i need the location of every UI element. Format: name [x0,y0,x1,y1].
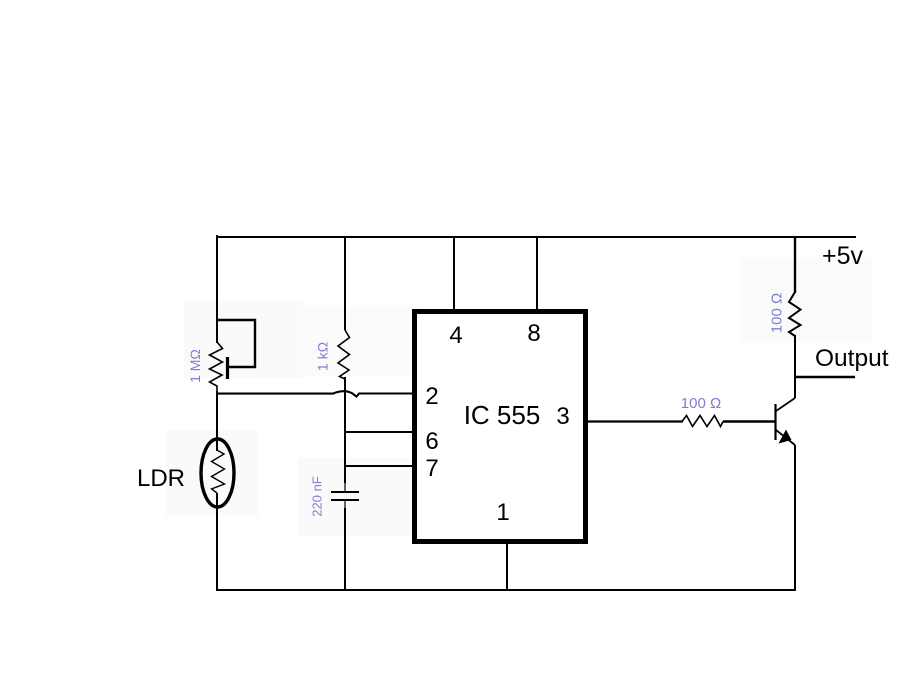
wire pin1 to bottom rail [506,543,508,591]
svg-text:Output: Output [815,345,889,372]
LDR ellipse body [201,439,234,507]
wire LDR to bottom rail [216,493,218,591]
svg-text:220 nF: 220 nF [310,476,325,517]
wire left vertical from rail to potentiometer [216,235,218,343]
faint artifact patch 1k area [295,306,420,376]
wire pin6 to IC [345,431,413,433]
svg-text:100 Ω: 100 Ω [769,293,786,333]
svg-text:7: 7 [425,455,438,482]
svg-text:+5v: +5v [822,242,864,270]
wire emitter to bottom rail [794,445,796,591]
transistor Q1 collector diagonal [776,398,795,411]
wire top +5v rail [216,236,856,238]
LDR resistor zigzag [212,450,225,493]
faint artifact patch collector resistor area [740,258,872,342]
svg-text:6: 6 [425,428,438,455]
wire pin8 to rail [536,237,538,310]
faint artifact patch capacitor area [298,458,423,536]
wire collector vertical to output junction [794,335,796,398]
potentiometer VR1 wiper bracket wire [217,320,255,367]
svg-text:LDR: LDR [137,465,185,492]
faint artifact patch pot area [184,300,305,378]
capacitor C1 top plate [331,491,359,493]
potentiometer VR1 1M resistor zigzag [210,342,223,394]
transistor Q1 emitter diagonal [776,430,795,445]
svg-text:IC 555: IC 555 [464,400,541,430]
wire pin3 to base resistor [587,420,683,422]
wire pin2 from pot over 1k branch to IC [217,391,414,396]
svg-text:3: 3 [556,403,569,430]
wire 1k bottom through junction to capacitor [344,377,346,483]
wire 1k branch from rail down [344,237,346,330]
transistor Q1 base bar [774,404,776,440]
svg-text:8: 8 [527,320,540,347]
resistor R4 100 collector zigzag [789,292,801,336]
faint artifact patch LDR area [166,430,258,516]
wire pot bottom to LDR [216,393,218,451]
capacitor C1 bottom plate [331,499,359,501]
resistor R3 100 base zigzag [682,416,723,427]
resistor R2 1k zigzag [338,330,350,379]
svg-text:2: 2 [425,383,438,410]
wire pin4 to rail [453,237,455,310]
svg-text:100 Ω: 100 Ω [681,395,721,412]
transistor Q1 emitter arrow [779,430,792,444]
wire base resistor to transistor base [723,420,775,422]
wire pin7 to IC [345,465,413,467]
svg-text:4: 4 [449,322,462,349]
wire thin lead from capacitor bottom plate [344,500,346,508]
wire bottom rail [216,589,795,591]
node junction pot bottom / pin2 [216,391,218,394]
wire +5v rail down to collector resistor [794,237,796,293]
op-amp U1 IC 555 box [415,312,586,542]
svg-text:1: 1 [496,499,509,526]
svg-text:1 MΩ: 1 MΩ [187,349,203,383]
svg-text:1 kΩ: 1 kΩ [315,342,331,371]
potentiometer VR1 wiper bar [226,357,229,379]
wire output tap [796,376,855,379]
wire capacitor to bottom rail [344,508,346,591]
wire thin lead to capacitor top plate [344,483,346,492]
